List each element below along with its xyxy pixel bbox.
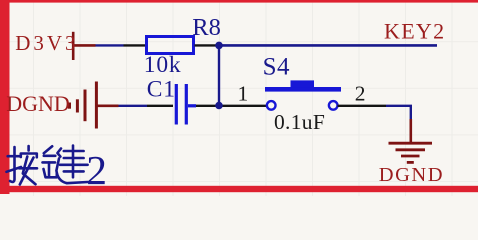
svg-text:S4: S4 (263, 53, 290, 80)
svg-text:1: 1 (238, 81, 249, 105)
svg-text:0.1uF: 0.1uF (274, 110, 325, 134)
svg-text:2: 2 (86, 147, 107, 193)
svg-text:10k: 10k (144, 52, 182, 78)
svg-text:KEY2: KEY2 (384, 19, 445, 44)
svg-text:2: 2 (355, 81, 366, 105)
svg-text:DGND: DGND (6, 91, 70, 116)
svg-text:C1: C1 (147, 76, 176, 102)
svg-text:DGND: DGND (379, 164, 444, 186)
svg-text:D3V3: D3V3 (15, 31, 78, 55)
svg-text:R8: R8 (192, 14, 221, 41)
